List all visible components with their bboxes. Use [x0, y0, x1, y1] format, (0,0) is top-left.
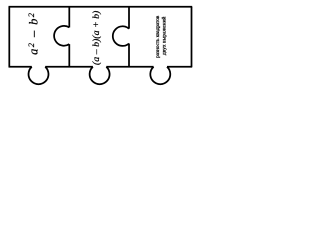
bottom edge segment 4 — [167, 66, 192, 68]
outer border left edge — [8, 7, 10, 67]
outer border right edge — [191, 7, 193, 67]
tab of piece 2 — [90, 67, 110, 84]
bottom edge segment 1 — [9, 66, 32, 68]
puzzle strip outline (3 jigsaw pieces) — [9, 7, 193, 84]
bottom edge segment 2 — [45, 66, 93, 68]
tab of piece 3 — [150, 67, 170, 84]
svg-text:(a – b)(a + b): (a – b)(a + b) — [91, 11, 102, 65]
svg-text:a2 – b2: a2 – b2 — [26, 12, 41, 55]
svg-text:двух выражений: двух выражений — [161, 16, 168, 55]
outer border top edge — [9, 6, 193, 8]
divider 1 lower segment — [68, 44, 70, 67]
knob on divider 1 (circle bulging left) — [54, 26, 69, 46]
divider 1 upper segment — [68, 7, 70, 28]
divider 2 lower segment — [128, 44, 130, 67]
svg-text:разность квадратов: разность квадратов — [155, 15, 161, 58]
divider 2 upper segment — [128, 7, 130, 29]
knob on divider 2 — [113, 26, 129, 46]
bottom edge segment 3 — [106, 66, 153, 68]
tab of piece 1 (circle below bottom edge) — [29, 67, 49, 84]
